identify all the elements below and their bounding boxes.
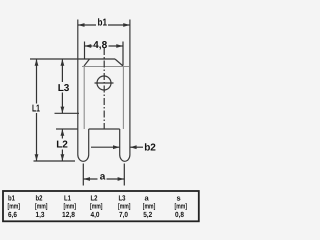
dim b2 right arrow bbox=[130, 146, 143, 148]
dim L2 arrows bbox=[61, 129, 65, 161]
dim b2 left arrow bbox=[91, 146, 120, 148]
right leg bbox=[120, 129, 130, 161]
svg-text:5,2: 5,2 bbox=[143, 210, 152, 219]
tab top edge with L1 extension line bbox=[30, 58, 115, 60]
dim a extension left bbox=[82, 164, 84, 186]
tab right rolled edge line bbox=[122, 66, 124, 129]
dim 4,8 extension left bbox=[84, 42, 86, 59]
table border bbox=[3, 191, 199, 221]
dim a arrows bbox=[84, 177, 125, 181]
dim L2 line bbox=[61, 129, 63, 161]
svg-text:1,3: 1,3 bbox=[36, 210, 45, 219]
svg-text:7,0: 7,0 bbox=[119, 210, 128, 219]
hole bbox=[97, 76, 111, 90]
dim L3 line bbox=[61, 59, 63, 113]
shoulder notch line with L2 extension bbox=[56, 128, 120, 130]
svg-text:L1: L1 bbox=[32, 104, 40, 115]
centerline bbox=[103, 48, 105, 130]
tab left chamfer bbox=[84, 59, 90, 66]
tab right outer edge with b1 extension bbox=[129, 20, 131, 130]
hole crosshair bbox=[95, 82, 114, 84]
svg-text:4,8: 4,8 bbox=[93, 40, 107, 51]
svg-text:4,0: 4,0 bbox=[91, 210, 100, 219]
dim L1 arrows bbox=[35, 59, 39, 161]
svg-text:6,6: 6,6 bbox=[8, 210, 17, 219]
dim a extension right bbox=[123, 164, 125, 186]
dim L1 line bbox=[36, 59, 38, 161]
svg-text:L3: L3 bbox=[58, 83, 70, 94]
svg-text:b1: b1 bbox=[98, 18, 108, 29]
dim 4,8 extension right bbox=[122, 42, 124, 66]
dim L1 bottom extension bbox=[34, 160, 76, 162]
dim b1 line bbox=[78, 24, 130, 26]
svg-text:a: a bbox=[100, 172, 106, 183]
svg-text:b2: b2 bbox=[144, 143, 156, 154]
svg-text:12,8: 12,8 bbox=[62, 210, 75, 219]
left leg bbox=[78, 129, 89, 161]
tab right chamfer bbox=[115, 59, 123, 66]
tab left outer edge with b1 extension bbox=[77, 20, 79, 130]
tab chamfer base line bbox=[82, 66, 129, 68]
svg-text:L2: L2 bbox=[56, 140, 68, 151]
dim L3 bottom extension bbox=[55, 112, 80, 114]
dim 4,8 line bbox=[85, 45, 124, 47]
dim a line bbox=[83, 178, 124, 180]
dim 4,8 arrows bbox=[85, 44, 123, 48]
dim b1 arrows bbox=[78, 23, 130, 27]
svg-text:0,8: 0,8 bbox=[175, 210, 184, 219]
tab left rolled edge line bbox=[83, 66, 85, 129]
dim L3 arrows bbox=[61, 59, 65, 113]
